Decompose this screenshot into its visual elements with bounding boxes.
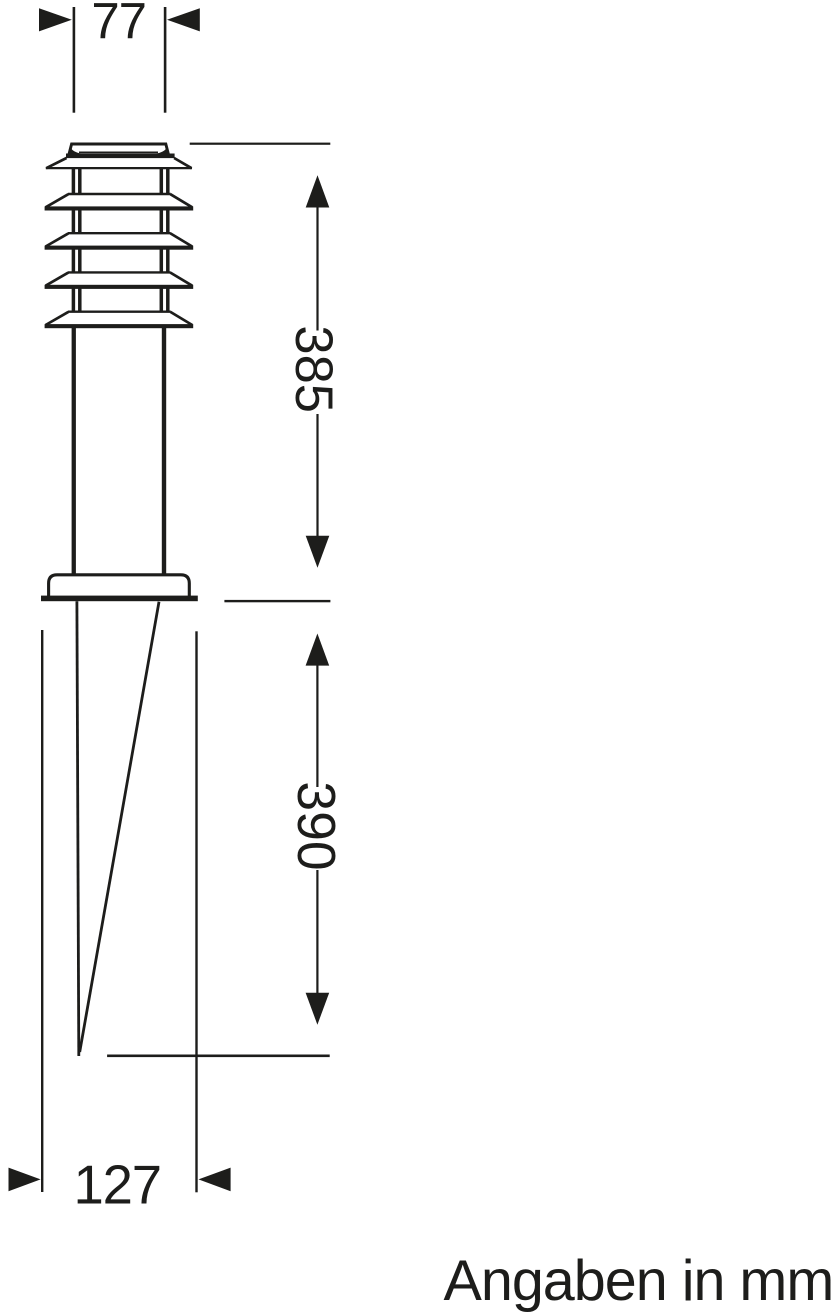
svg-text:77: 77 — [91, 0, 145, 50]
dim 127 left extension line — [41, 630, 43, 1192]
flange — [49, 575, 190, 598]
dim 127 right arrow — [199, 1168, 231, 1192]
extension line bottom (spike tip level) — [107, 1055, 330, 1058]
louver 5 — [45, 312, 194, 329]
dim 77 right extension line — [164, 7, 167, 113]
dim 77 left extension line — [73, 7, 76, 113]
svg-text:385: 385 — [284, 325, 343, 413]
post left wall — [72, 328, 76, 574]
post right wall — [162, 328, 166, 574]
louver 1 (top roof) — [46, 154, 192, 169]
dim 77 right arrow — [167, 8, 200, 31]
extension line mid (flange bottom level) — [224, 600, 330, 602]
extension line top (lamp top level) — [190, 143, 331, 145]
spike outer edge — [77, 601, 79, 1056]
louver 3 — [45, 233, 194, 250]
dim 390 line with arrows — [306, 634, 330, 1025]
svg-text:127: 127 — [74, 1155, 161, 1216]
dim 127 right extension line — [195, 631, 197, 1192]
svg-text:Angaben in mm: Angaben in mm — [444, 1249, 832, 1313]
louver 4 — [45, 272, 194, 289]
lamp cap — [69, 144, 169, 155]
flange base bar — [41, 596, 198, 602]
svg-text:390: 390 — [286, 781, 345, 870]
dim 77 left arrow — [39, 8, 72, 31]
louver support rails — [73, 158, 167, 326]
spike inner diagonal — [80, 602, 159, 1052]
dim 385 line with arrows — [306, 175, 330, 568]
dim 127 left arrow — [9, 1168, 41, 1192]
louver 2 — [45, 194, 194, 211]
